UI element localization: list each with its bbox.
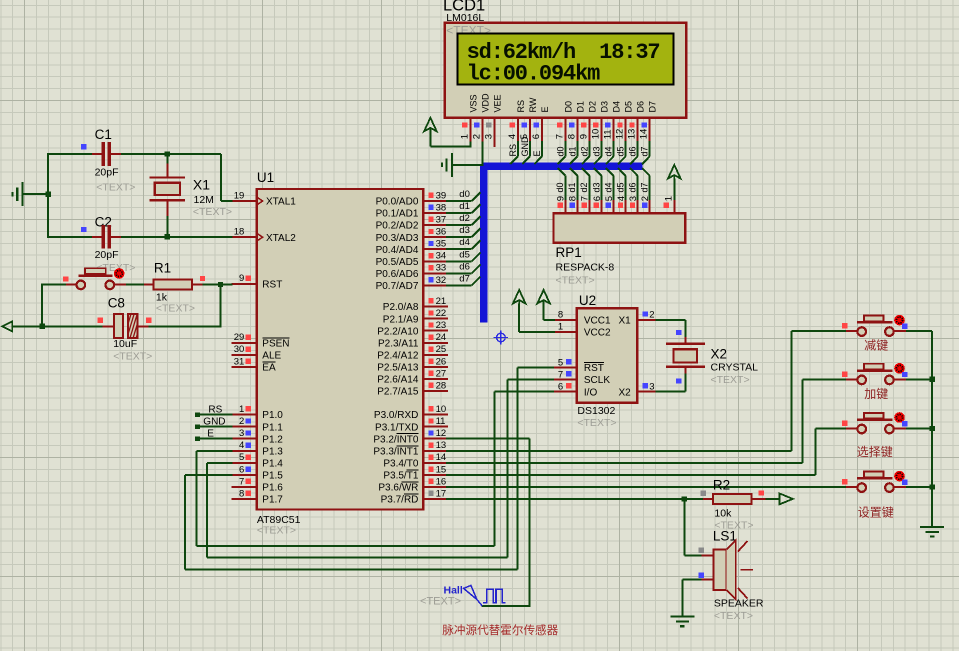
svg-text:d1: d1: [459, 201, 470, 212]
wire button right rail: [906, 331, 932, 527]
crystal X1 12M: [150, 154, 232, 238]
wire bus to RP1 pin4 net d5: [618, 168, 626, 200]
svg-text:35: 35: [436, 239, 447, 250]
push button 加键: [842, 363, 907, 401]
ground (crystal rail): [13, 182, 50, 206]
RTC U2 DS1302: [554, 293, 657, 429]
wire P3.6 to button4: [446, 486, 846, 488]
wire bus to RP1 pin9 net d0: [558, 168, 566, 200]
svg-text:E: E: [532, 150, 542, 156]
svg-text:P1.1: P1.1: [262, 422, 283, 433]
svg-text:8: 8: [566, 134, 577, 139]
svg-text:2: 2: [649, 310, 654, 321]
svg-text:10: 10: [436, 404, 447, 415]
svg-text:d3: d3: [459, 225, 470, 236]
wire bus to RP1 pin8 net d1: [570, 168, 578, 200]
svg-text:16: 16: [436, 476, 447, 487]
svg-text:RS: RS: [508, 144, 518, 157]
svg-text:d3: d3: [591, 146, 601, 156]
svg-text:U2: U2: [579, 293, 596, 308]
svg-text:EA: EA: [262, 362, 276, 373]
svg-text:VDD: VDD: [480, 93, 490, 113]
wire P3.2/INT0 to Hall source: [446, 439, 531, 606]
svg-text:12: 12: [436, 428, 447, 439]
svg-text:P0.5/AD5: P0.5/AD5: [376, 257, 419, 268]
svg-text:20pF: 20pF: [95, 249, 119, 261]
svg-text:<TEXT>: <TEXT>: [577, 417, 616, 429]
svg-text:P0.0/AD0: P0.0/AD0: [376, 197, 419, 208]
svg-text:33: 33: [436, 263, 447, 274]
wire P0.3 net d3 to bus: [446, 228, 481, 237]
wire bus to RP1 pin7 net d2: [582, 168, 590, 200]
svg-text:D0: D0: [563, 101, 573, 113]
svg-text:10: 10: [590, 129, 601, 140]
svg-text:d4: d4: [459, 237, 470, 248]
wire LCD pin7 net d0 to bus: [558, 141, 566, 164]
svg-text:P1.2: P1.2: [262, 434, 283, 445]
svg-text:24: 24: [436, 332, 447, 343]
svg-text:P2.1/A9: P2.1/A9: [383, 314, 419, 325]
svg-text:20pF: 20pF: [95, 167, 119, 179]
microcontroller U1 AT89C51: [232, 170, 449, 537]
svg-text:RW: RW: [528, 97, 538, 112]
ground (LCD VDD pin): [442, 153, 483, 177]
svg-text:d6: d6: [628, 146, 638, 156]
wire net RS (P1.0): [195, 412, 232, 417]
svg-text:17: 17: [436, 488, 447, 499]
svg-text:VCC1: VCC1: [584, 316, 611, 327]
wire C8 net: [12, 325, 221, 327]
svg-text:VSS: VSS: [468, 94, 478, 112]
svg-text:d1: d1: [567, 146, 577, 156]
LCD display LCD1 LM016L: [443, 0, 686, 147]
svg-text:X1: X1: [618, 316, 631, 327]
svg-text:11: 11: [436, 416, 446, 427]
svg-text:d4: d4: [604, 146, 614, 156]
junction: [165, 152, 170, 157]
svg-text:d2: d2: [459, 213, 470, 224]
svg-text:3: 3: [239, 428, 244, 439]
svg-text:D1: D1: [575, 101, 585, 113]
junction: [682, 496, 687, 501]
svg-text:U1: U1: [257, 170, 274, 185]
svg-text:XTAL1: XTAL1: [266, 197, 296, 208]
svg-text:d0: d0: [555, 182, 565, 192]
wire U2 X1 to crystal: [656, 320, 686, 337]
svg-text:P0.7/AD7: P0.7/AD7: [376, 281, 419, 292]
svg-text:C8: C8: [108, 296, 125, 311]
wire speaker bottom to ground: [682, 580, 701, 617]
wire P3.5 to button3: [446, 428, 846, 474]
wire P0.0 net d0 to bus: [446, 192, 481, 201]
wire P3.7/RD to R2: [446, 498, 703, 500]
svg-text:D6: D6: [636, 101, 646, 113]
svg-text:23: 23: [436, 320, 447, 331]
svg-text:d6: d6: [627, 182, 637, 192]
wire LCD pin8 net d1 to bus: [570, 141, 578, 164]
push button (reset): [63, 268, 126, 289]
svg-text:36: 36: [436, 227, 447, 238]
svg-text:P0.1/AD1: P0.1/AD1: [376, 209, 419, 220]
wire bus to RP1 pin6 net d3: [594, 168, 602, 200]
wire P0.7 net d7 to bus: [446, 277, 481, 286]
svg-text:39: 39: [436, 190, 447, 201]
svg-text:P3.7/RD: P3.7/RD: [381, 495, 419, 506]
svg-text:<TEXT>: <TEXT>: [714, 610, 753, 622]
svg-text:选择键: 选择键: [857, 445, 893, 459]
svg-text:d5: d5: [616, 146, 626, 156]
svg-text:X2: X2: [618, 387, 631, 398]
svg-text:8: 8: [558, 310, 563, 321]
svg-text:32: 32: [436, 275, 447, 286]
svg-text:29: 29: [234, 332, 245, 343]
svg-text:3: 3: [649, 382, 654, 393]
svg-text:9: 9: [239, 273, 244, 284]
wire LCD pin9 net d2 to bus: [582, 141, 590, 164]
svg-text:9: 9: [578, 134, 589, 139]
resistor R1 1k: [144, 261, 205, 315]
wire net GND (P1.1): [195, 424, 232, 429]
wire P1.5 to U2 RST: [185, 368, 555, 570]
svg-text:1: 1: [558, 322, 563, 333]
svg-text:RP1: RP1: [556, 245, 582, 260]
svg-text:D4: D4: [612, 101, 622, 113]
bus data d0-d7: [484, 166, 643, 322]
wire net XTAL2 (C2 rail): [48, 236, 232, 238]
wire LCD pin6 net E to bus: [534, 141, 542, 164]
push button 减键: [842, 315, 907, 353]
svg-text:12: 12: [615, 129, 626, 140]
svg-text:<TEXT>: <TEXT>: [711, 374, 750, 386]
svg-text:1: 1: [239, 404, 244, 415]
wire LCD pin13 net d6 to bus: [630, 141, 638, 164]
svg-text:7: 7: [239, 476, 244, 487]
svg-text:I/O: I/O: [584, 387, 598, 398]
wire P0.6 net d6 to bus: [446, 265, 481, 274]
svg-text:14: 14: [436, 452, 447, 463]
svg-text:CRYSTAL: CRYSTAL: [711, 362, 759, 374]
svg-text:RS: RS: [516, 100, 526, 113]
svg-text:P2.5/A13: P2.5/A13: [377, 362, 419, 373]
svg-text:26: 26: [436, 356, 447, 367]
svg-text:X2: X2: [711, 347, 728, 362]
svg-text:1: 1: [663, 196, 674, 201]
pulse generator Hall: [420, 585, 506, 608]
capacitor C1 20pF: [81, 127, 135, 194]
svg-text:<TEXT>: <TEXT>: [113, 351, 152, 363]
svg-text:P3.6/WR: P3.6/WR: [378, 483, 418, 494]
wire P0.1 net d1 to bus: [446, 204, 481, 213]
svg-text:5: 5: [558, 357, 563, 368]
svg-text:X1: X1: [193, 177, 210, 193]
input terminal: [2, 321, 12, 331]
junction: [40, 324, 45, 329]
wire P1.3 to U2 I/O: [197, 392, 555, 546]
svg-text:d7: d7: [639, 182, 649, 192]
power terminal VCC (U2 VCC1): [537, 290, 555, 320]
wire RST net: [42, 283, 232, 326]
wire P0.2 net d2 to bus: [446, 216, 481, 225]
svg-text:P2.0/A8: P2.0/A8: [383, 302, 419, 313]
svg-text:38: 38: [436, 202, 447, 213]
svg-text:<TEXT>: <TEXT>: [193, 206, 232, 218]
ground (speaker): [670, 615, 694, 617]
wire LCD pin4 net RS to bus: [510, 141, 518, 164]
svg-text:7: 7: [558, 369, 563, 380]
svg-text:设置键: 设置键: [858, 506, 894, 520]
svg-text:19: 19: [234, 190, 245, 201]
svg-text:d2: d2: [579, 182, 589, 192]
svg-text:<TEXT>: <TEXT>: [556, 275, 595, 287]
svg-text:D7: D7: [648, 101, 658, 113]
svg-text:P0.3/AD3: P0.3/AD3: [376, 233, 419, 244]
svg-text:d2: d2: [579, 146, 589, 156]
svg-text:<TEXT>: <TEXT>: [156, 302, 195, 314]
svg-text:VCC2: VCC2: [584, 328, 611, 339]
push button 选择键: [842, 412, 907, 459]
wire LCD pin1 to power: [469, 142, 471, 148]
svg-text:P1.5: P1.5: [262, 470, 283, 481]
wire P1.4 to U2 SCLK: [207, 380, 555, 558]
wire LCD pin2 to ground: [481, 142, 483, 166]
svg-text:P2.2/A10: P2.2/A10: [377, 326, 419, 337]
svg-text:d7: d7: [459, 273, 470, 284]
wire LCD pin10 net d3 to bus: [594, 141, 602, 164]
svg-text:ALE: ALE: [262, 350, 281, 361]
svg-text:RS: RS: [208, 404, 222, 415]
resistor R2 10k: [701, 477, 766, 531]
svg-text:18: 18: [234, 227, 245, 238]
svg-text:13: 13: [436, 440, 447, 451]
svg-text:脉冲源代替霍尔传感器: 脉冲源代替霍尔传感器: [442, 623, 558, 637]
svg-text:R2: R2: [713, 477, 730, 492]
push button 设置键: [842, 471, 907, 520]
junction: [930, 377, 935, 382]
svg-text:22: 22: [436, 308, 447, 319]
wire net XTAL1 (C1 top rail): [48, 154, 232, 201]
svg-text:d5: d5: [459, 249, 470, 260]
junction: [165, 234, 170, 239]
svg-text:P0.4/AD4: P0.4/AD4: [376, 245, 419, 256]
svg-text:C1: C1: [95, 127, 112, 142]
wire LCD pin12 net d5 to bus: [618, 141, 626, 164]
wire LCD pin5 net GND to bus: [522, 141, 530, 164]
svg-text:SPEAKER: SPEAKER: [714, 598, 764, 610]
svg-text:P1.7: P1.7: [262, 495, 283, 506]
svg-text:d5: d5: [615, 182, 625, 192]
resistor pack RP1 RESPACK-8: [554, 196, 686, 287]
svg-text:37: 37: [436, 215, 447, 226]
wire net E (P1.2): [195, 436, 232, 441]
svg-text:P1.4: P1.4: [262, 458, 283, 469]
capacitor C2 20pF: [81, 214, 135, 274]
svg-text:lc:00.094km: lc:00.094km: [467, 61, 601, 86]
svg-text:6: 6: [239, 464, 244, 475]
svg-text:P0.2/AD2: P0.2/AD2: [376, 221, 419, 232]
svg-text:10uF: 10uF: [113, 338, 137, 350]
svg-text:4: 4: [239, 440, 244, 451]
svg-text:P1.0: P1.0: [262, 410, 283, 421]
svg-text:P1.6: P1.6: [262, 483, 283, 494]
svg-text:减键: 减键: [864, 339, 888, 353]
svg-text:d0: d0: [555, 146, 565, 156]
svg-text:27: 27: [436, 368, 447, 379]
svg-text:LS1: LS1: [713, 529, 737, 544]
svg-text:SCLK: SCLK: [584, 375, 610, 386]
svg-text:XTAL2: XTAL2: [266, 233, 296, 244]
svg-text:d1: d1: [567, 182, 577, 192]
junction: [46, 192, 51, 197]
wire left rail C1-C2: [47, 153, 49, 238]
power terminal VCC (RP1 pin1): [668, 165, 681, 200]
svg-text:8: 8: [239, 488, 244, 499]
wire P3.3 to button1: [446, 331, 846, 451]
svg-text:D3: D3: [599, 101, 609, 113]
svg-text:2: 2: [239, 416, 244, 427]
wire U2 X2 to crystal: [656, 374, 686, 392]
svg-text:E: E: [540, 106, 550, 112]
svg-text:11: 11: [603, 129, 614, 139]
svg-text:P3.2/INT0: P3.2/INT0: [373, 434, 418, 445]
svg-text:30: 30: [234, 344, 245, 355]
wire P0.5 net d5 to bus: [446, 252, 481, 261]
svg-text:R1: R1: [154, 261, 171, 276]
svg-text:d7: d7: [640, 146, 650, 156]
origin marker: [494, 330, 508, 344]
svg-text:GND: GND: [203, 417, 225, 428]
svg-text:25: 25: [436, 344, 447, 355]
svg-text:P2.3/A11: P2.3/A11: [378, 338, 419, 349]
power terminal VCC (LCD VSS pin): [424, 118, 470, 147]
svg-text:4: 4: [507, 134, 518, 139]
svg-text:28: 28: [436, 380, 447, 391]
svg-text:13: 13: [627, 129, 638, 140]
svg-text:PSEN: PSEN: [262, 338, 289, 349]
svg-text:D5: D5: [624, 101, 634, 113]
wire bus to RP1 pin3 net d6: [630, 168, 638, 200]
svg-text:5: 5: [239, 452, 244, 463]
svg-text:1: 1: [459, 134, 470, 139]
svg-text:P2.7/A15: P2.7/A15: [377, 387, 419, 398]
svg-text:d4: d4: [603, 182, 613, 192]
svg-text:<TEXT>: <TEXT>: [96, 182, 135, 194]
svg-text:D2: D2: [587, 101, 597, 113]
svg-text:RESPACK-8: RESPACK-8: [556, 262, 615, 274]
svg-text:6: 6: [531, 134, 542, 139]
svg-text:6: 6: [558, 382, 563, 393]
svg-text:14: 14: [639, 129, 650, 140]
svg-text:21: 21: [436, 296, 447, 307]
svg-text:34: 34: [436, 251, 447, 262]
wire P3.4 to button2: [446, 379, 846, 463]
wire P0.4 net d4 to bus: [446, 240, 481, 249]
junction: [930, 484, 935, 489]
svg-text:d0: d0: [459, 189, 470, 200]
svg-text:7: 7: [554, 134, 565, 139]
svg-text:<TEXT>: <TEXT>: [420, 595, 461, 607]
ground (buttons): [920, 526, 944, 528]
svg-text:31: 31: [234, 356, 245, 367]
svg-text:P2.6/A14: P2.6/A14: [377, 375, 419, 386]
capacitor C8 10uF (electrolytic): [98, 296, 169, 363]
junction: [218, 282, 223, 287]
junction: [930, 426, 935, 431]
speaker LS1: [699, 529, 764, 622]
wire bus to RP1 pin5 net d4: [606, 168, 614, 200]
svg-text:12M: 12M: [194, 194, 214, 206]
svg-text:DS1302: DS1302: [577, 405, 615, 417]
svg-text:P3.3/INT1: P3.3/INT1: [373, 446, 418, 457]
svg-text:RST: RST: [262, 279, 282, 290]
svg-text:GND: GND: [520, 136, 530, 157]
svg-text:<TEXT>: <TEXT>: [257, 525, 296, 537]
svg-text:P0.6/AD6: P0.6/AD6: [376, 269, 419, 280]
wire bus to RP1 pin2 net d7: [642, 168, 650, 200]
svg-text:P3.5/T1: P3.5/T1: [383, 470, 418, 481]
output terminal: [765, 493, 793, 504]
svg-text:P3.0/RXD: P3.0/RXD: [374, 410, 418, 421]
wire R2 to speaker top: [684, 499, 701, 555]
svg-text:加键: 加键: [864, 387, 888, 401]
crystal X2 CRYSTAL: [666, 330, 758, 386]
svg-text:RST: RST: [584, 363, 604, 374]
power terminal VCC (U2 VCC2): [513, 290, 555, 332]
wire LCD pin14 net d7 to bus: [642, 141, 650, 164]
wire LCD pin11 net d4 to bus: [606, 141, 614, 164]
svg-text:3: 3: [484, 134, 495, 139]
svg-text:d6: d6: [459, 261, 470, 272]
svg-text:15: 15: [436, 464, 447, 475]
svg-text:2: 2: [471, 134, 482, 139]
svg-text:d3: d3: [591, 182, 601, 192]
svg-text:P3.1/TXD: P3.1/TXD: [375, 422, 418, 433]
svg-text:VEE: VEE: [493, 94, 503, 112]
svg-text:E: E: [207, 429, 214, 440]
svg-text:P2.4/A12: P2.4/A12: [377, 350, 419, 361]
svg-text:10k: 10k: [714, 508, 732, 520]
svg-text:P1.3: P1.3: [262, 446, 283, 457]
svg-text:P3.4/T0: P3.4/T0: [383, 458, 418, 469]
